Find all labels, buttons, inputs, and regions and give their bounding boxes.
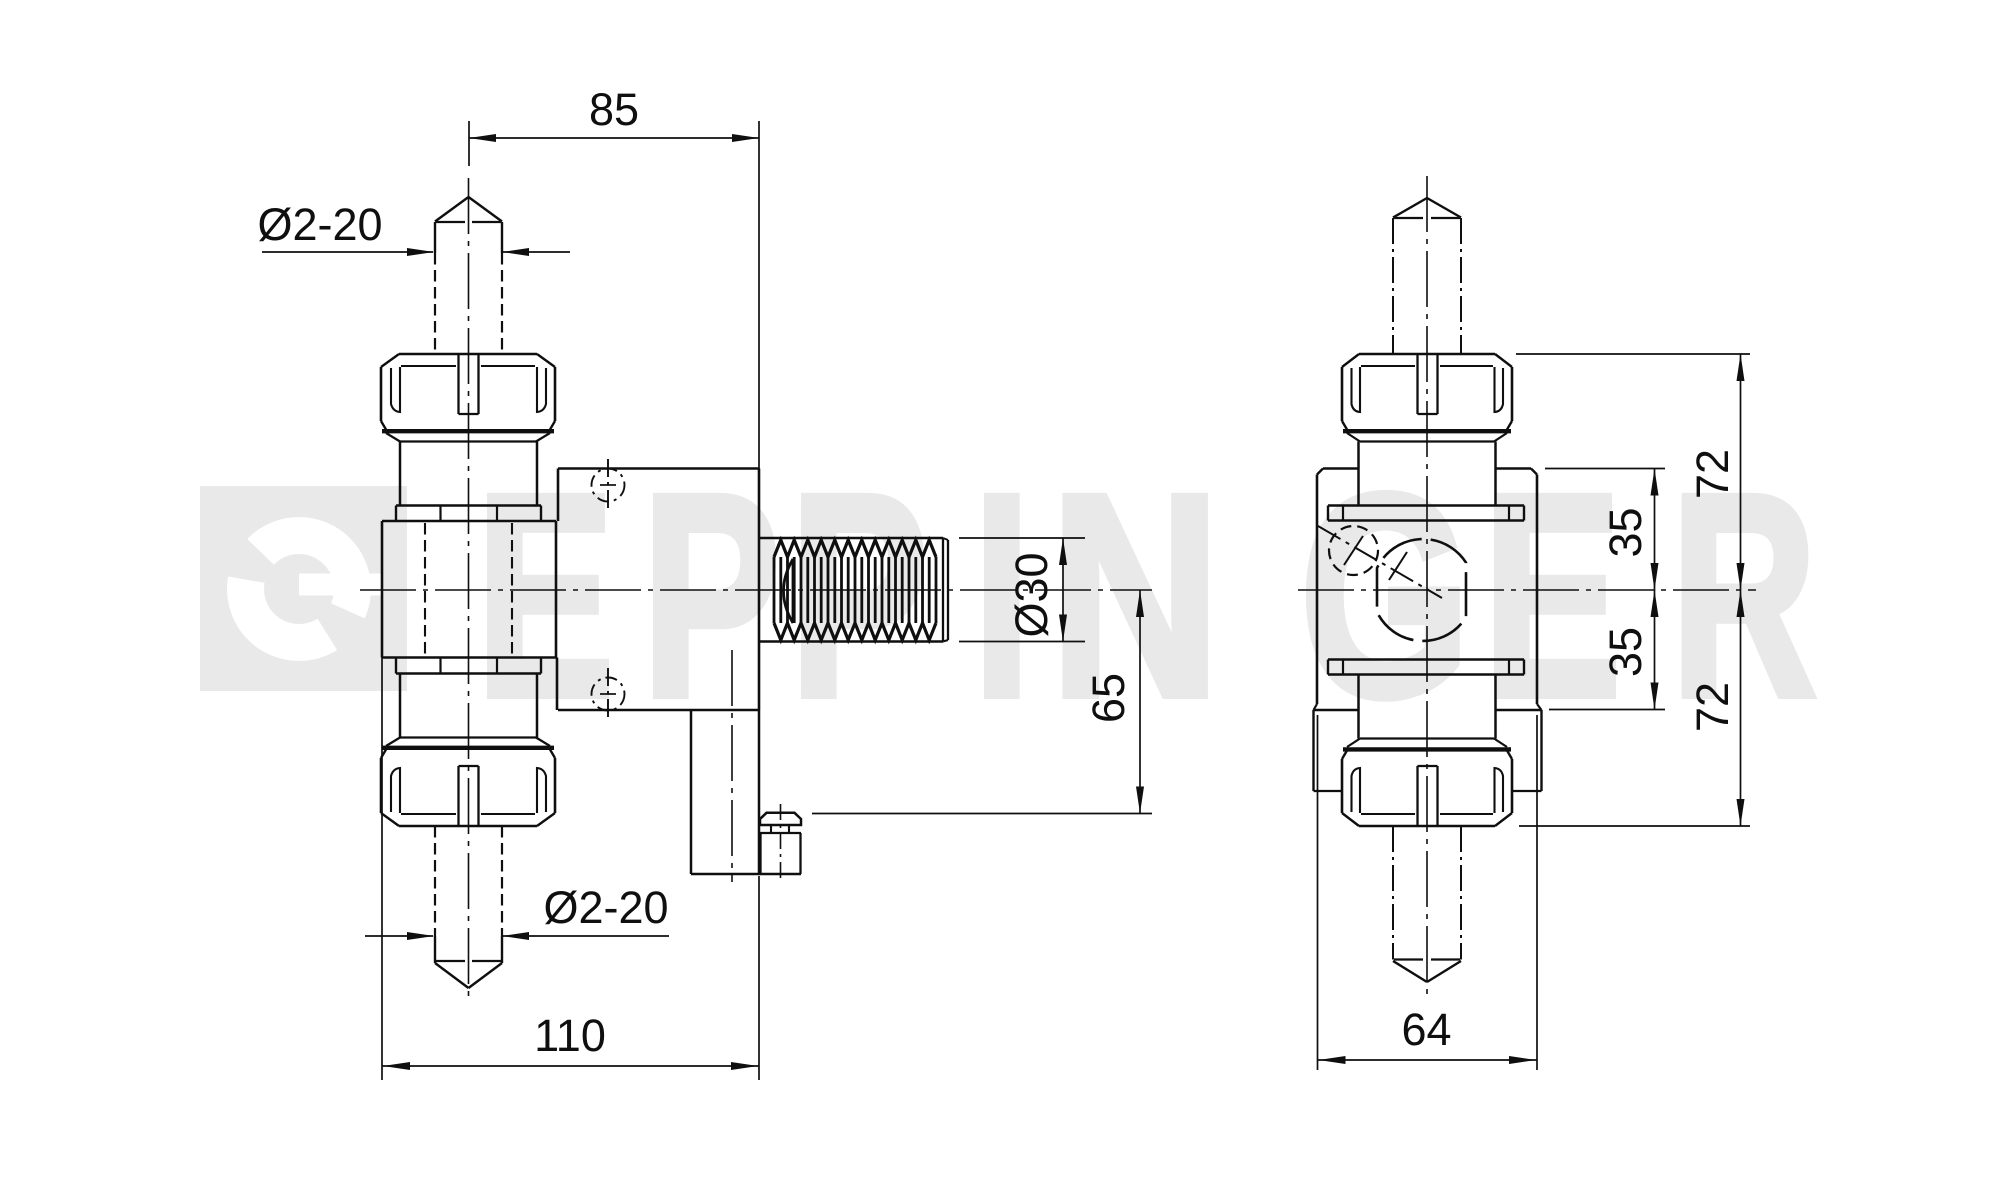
svg-text:72: 72 — [1687, 449, 1738, 499]
svg-text:65: 65 — [1083, 673, 1134, 723]
svg-text:N: N — [1050, 435, 1221, 757]
svg-text:110: 110 — [534, 1010, 606, 1061]
svg-text:35: 35 — [1600, 507, 1651, 557]
svg-text:72: 72 — [1687, 682, 1738, 732]
svg-text:Ø2-20: Ø2-20 — [257, 199, 382, 250]
svg-text:Ø30: Ø30 — [1006, 552, 1057, 637]
svg-text:P: P — [790, 436, 928, 757]
svg-text:Ø2-20: Ø2-20 — [543, 882, 668, 933]
svg-text:35: 35 — [1600, 627, 1651, 677]
svg-text:64: 64 — [1401, 1004, 1451, 1055]
svg-text:G: G — [1300, 435, 1470, 757]
svg-text:85: 85 — [589, 84, 639, 135]
